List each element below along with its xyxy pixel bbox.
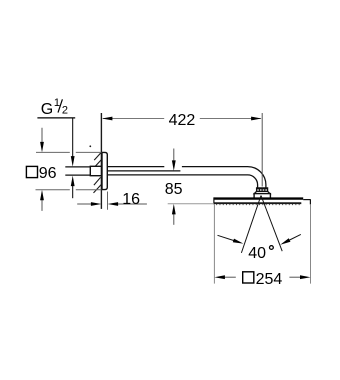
dimension 85 lower arrow — [172, 204, 176, 225]
G1/2 connector box — [90, 166, 101, 175]
spray angle right arrow — [280, 234, 301, 244]
svg-text:1: 1 — [54, 97, 60, 109]
wall hatch stroke 3 — [94, 177, 101, 185]
supply pipe stub top edge — [65, 166, 90, 168]
shower arm bottom edge — [107, 175, 257, 188]
svg-text:85: 85 — [165, 181, 183, 198]
dimension 16 left arrow — [77, 202, 101, 206]
shower head right edge — [309, 199, 311, 204]
shower arm top edge — [107, 167, 266, 189]
svg-text:G: G — [41, 101, 53, 118]
svg-text:422: 422 — [169, 112, 196, 129]
shower head top plate — [214, 197, 303, 199]
dimension 422 centerline extension — [261, 113, 263, 187]
wall flange escutcheon — [102, 152, 107, 189]
wall hatch stroke 1 — [94, 153, 101, 160]
label square 96 — [26, 165, 56, 182]
ball joint base — [254, 194, 270, 199]
wall hatch dot — [89, 145, 91, 147]
spray angle left arrow — [218, 235, 244, 243]
spray angle left line — [241, 196, 261, 253]
svg-text:16: 16 — [122, 191, 140, 208]
dimension 85 upper arrow — [172, 149, 176, 171]
dimension square96 top extension line — [36, 151, 101, 153]
supply pipe stub bottom edge — [65, 174, 90, 176]
shower head bottom edge spray face — [214, 202, 301, 204]
ball joint collar — [254, 191, 270, 193]
dimension square96 top arrow — [40, 128, 44, 153]
dimension 16 flange extension line — [107, 192, 109, 210]
dimension square254 left extension line — [213, 204, 215, 283]
spray nozzle ticks — [216, 204, 300, 206]
G1/2 lower arrow up — [71, 176, 75, 199]
shower arm middle edge — [107, 170, 180, 172]
ball joint nut — [257, 188, 268, 192]
dimension square254 right extension line — [310, 205, 312, 284]
dimension 85 lower extension line — [168, 203, 214, 205]
dimension 16 right arrow — [108, 202, 147, 206]
wall hatch stroke 4 — [94, 184, 102, 193]
dimension square254 line left — [214, 275, 235, 279]
G1/2 leader underline — [37, 117, 75, 119]
wall line — [100, 113, 102, 209]
spray angle right line — [261, 196, 282, 252]
shower head left edge — [213, 197, 215, 204]
wall hatch stroke 2 — [93, 160, 101, 169]
dimension square254 line right — [289, 275, 310, 279]
dimension square96 bottom extension line — [36, 189, 102, 191]
dimension square96 bottom arrow — [40, 190, 44, 211]
dimension 422 line — [102, 117, 262, 121]
shower head top right lip — [303, 199, 310, 201]
G1/2 leader stem and arrow down — [71, 118, 75, 167]
label square 254 — [243, 271, 283, 288]
label G 1/2 — [41, 97, 68, 118]
svg-text:2: 2 — [62, 104, 68, 116]
svg-text:254: 254 — [256, 271, 283, 288]
svg-text:40: 40 — [248, 245, 266, 262]
svg-text:96: 96 — [39, 165, 57, 182]
